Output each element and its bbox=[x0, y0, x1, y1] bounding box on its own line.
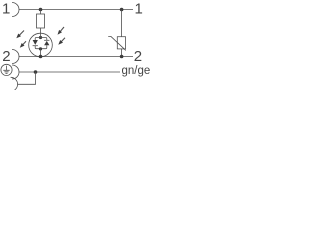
LED V1 (cathode down) bbox=[33, 40, 38, 45]
wire LED bottom lead bbox=[40, 49, 42, 57]
functional earth contact bbox=[11, 77, 18, 91]
LED indicator circle bbox=[29, 33, 53, 57]
node net2-varistor junction bbox=[120, 55, 124, 59]
svg-text:1: 1 bbox=[135, 1, 143, 18]
LED emission arrow right upper bbox=[60, 27, 64, 32]
PE earth symbol bbox=[1, 64, 12, 75]
node net1-R junction bbox=[39, 8, 43, 12]
wire LED branch join bbox=[35, 45, 47, 49]
svg-text:1: 1 bbox=[2, 1, 10, 18]
wire PE net bbox=[19, 71, 120, 73]
LED emission arrow left upper bbox=[19, 31, 24, 37]
node net1-varistor junction bbox=[120, 8, 124, 12]
svg-text:2: 2 bbox=[134, 48, 142, 65]
LED V2 (cathode up) bbox=[44, 39, 49, 41]
wire net1 top bbox=[19, 9, 133, 11]
wire net2 bbox=[19, 56, 133, 58]
LED emission arrow left lower bbox=[22, 41, 26, 45]
svg-text:gn/ge: gn/ge bbox=[122, 65, 151, 77]
LED emission arrow right lower bbox=[61, 38, 65, 43]
node PE junction bbox=[34, 70, 38, 74]
node LED bottom junction bbox=[39, 47, 42, 50]
wire R top lead bbox=[40, 10, 42, 15]
pin 2 contact bbox=[12, 50, 19, 64]
node net2-LED junction bbox=[39, 55, 43, 59]
varistor RU bbox=[117, 37, 125, 49]
wire R bottom lead bbox=[40, 28, 42, 34]
svg-text:2: 2 bbox=[2, 48, 10, 65]
wire varistor top lead bbox=[121, 10, 123, 37]
wire LED branch split bbox=[35, 34, 47, 40]
wire FE branch bbox=[17, 72, 35, 84]
PE contact bbox=[12, 65, 19, 79]
resistor R1 bbox=[37, 14, 45, 28]
wire varistor bottom lead bbox=[121, 49, 123, 57]
pin 1 contact bbox=[12, 3, 19, 17]
node LED top junction bbox=[39, 36, 42, 39]
